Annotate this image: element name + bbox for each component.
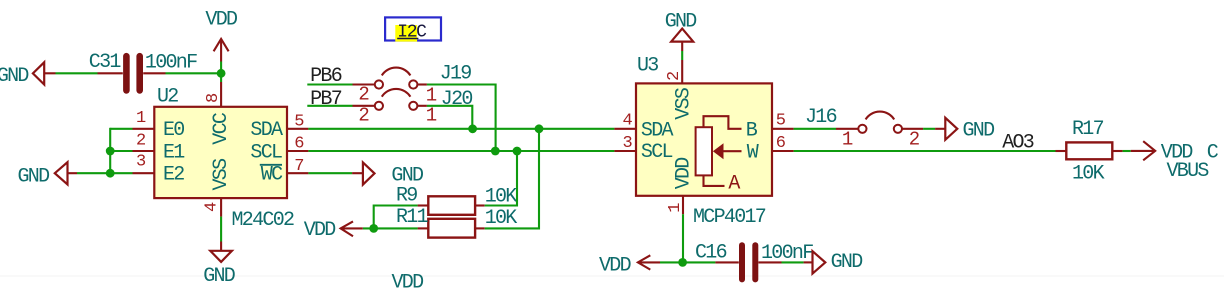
U2 pin name E2	[163, 164, 184, 187]
svg-text:R17: R17	[1072, 118, 1104, 141]
wire U3 pin1 down	[682, 214, 684, 262]
svg-text:VSS: VSS	[210, 158, 233, 191]
svg-text:W: W	[747, 142, 759, 165]
U3 pin name SCL	[641, 141, 673, 164]
svg-text:1: 1	[426, 104, 437, 126]
U3 pin name VDD (vertical)	[673, 158, 696, 190]
net label PB6	[310, 65, 342, 88]
svg-text:VDD: VDD	[205, 9, 237, 32]
wire R17 to VDD	[1123, 150, 1131, 152]
U3 pin name VSS (vertical)	[673, 87, 696, 120]
junction E2	[106, 169, 115, 178]
wire C16 to GND	[782, 261, 804, 263]
svg-text:VBUS: VBUS	[1167, 160, 1210, 183]
svg-text:1: 1	[136, 109, 146, 128]
svg-text:1: 1	[426, 84, 437, 106]
wire U3 pin2 stem	[681, 51, 683, 60]
power symbol GND (left, E pins)	[18, 162, 78, 188]
svg-text:VDD: VDD	[304, 219, 336, 242]
svg-text:1: 1	[842, 128, 853, 150]
wire VDD stem	[220, 62, 222, 83]
wire junction to C16	[660, 261, 715, 263]
svg-text:3: 3	[136, 153, 146, 172]
junction E1	[106, 147, 115, 156]
svg-text:SDA: SDA	[250, 119, 283, 142]
svg-text:B: B	[746, 119, 758, 142]
svg-text:4: 4	[203, 202, 222, 212]
wire C31 to VDD junction	[166, 72, 222, 74]
U2 pin 1	[133, 109, 155, 129]
svg-text:4: 4	[623, 112, 633, 131]
U2 pin 2	[133, 131, 155, 151]
svg-text:100nF: 100nF	[145, 51, 197, 74]
power symbol VDD (bottom center)	[392, 272, 424, 292]
U3 potentiometer symbol	[696, 116, 759, 195]
svg-text:10K: 10K	[1072, 163, 1105, 186]
svg-text:SCL: SCL	[250, 141, 282, 164]
junction SCL/R9	[513, 147, 522, 156]
svg-text:VSS: VSS	[673, 87, 696, 120]
U2 pin 3	[133, 153, 155, 174]
wire PB6	[307, 83, 352, 85]
jumper J19	[353, 62, 472, 106]
svg-text:J19: J19	[440, 62, 472, 85]
resistor R9	[396, 184, 517, 214]
capacitor C31	[89, 51, 197, 91]
U3 pin 1	[666, 196, 685, 214]
U2 pin name WC (active low)	[260, 164, 283, 187]
wire R11 right to SDA	[485, 129, 539, 229]
svg-text:3: 3	[623, 134, 633, 153]
svg-text:MCP4017: MCP4017	[693, 206, 766, 229]
svg-text:5: 5	[776, 112, 786, 131]
svg-text:2: 2	[358, 104, 369, 126]
wire GND to C31	[56, 72, 98, 74]
svg-text:SDA: SDA	[641, 119, 674, 142]
svg-text:R9: R9	[396, 184, 417, 207]
wire R9 right to SCL	[485, 151, 517, 206]
U3 pin 4	[614, 112, 636, 131]
wire U2 pin4 to GND	[220, 217, 222, 242]
svg-text:E2: E2	[163, 164, 184, 187]
wire PB7	[307, 105, 352, 107]
svg-text:U2: U2	[157, 86, 178, 109]
jumper J16	[805, 106, 923, 150]
svg-text:GND: GND	[18, 165, 50, 188]
svg-text:VCC: VCC	[210, 112, 233, 145]
power symbol VDD (right of R17)	[1131, 141, 1193, 164]
svg-text:VDD: VDD	[673, 158, 696, 190]
svg-text:6: 6	[294, 135, 304, 154]
svg-text:E1: E1	[163, 141, 185, 164]
wire R9 left to VDD junction	[374, 206, 418, 229]
junction SCL/J19	[491, 147, 500, 156]
svg-text:A: A	[728, 173, 740, 196]
text box I2C	[385, 17, 441, 42]
U3 pin 3	[614, 134, 636, 153]
svg-text:GND: GND	[203, 265, 235, 288]
power symbol GND (WC pin)	[308, 162, 423, 187]
svg-text:C16: C16	[695, 241, 727, 264]
junction SDA/R11	[535, 124, 544, 133]
wire U3 pin5 B to J16	[794, 128, 836, 130]
net label PB7	[310, 88, 342, 111]
junction (C31 / VDD / pin8)	[217, 69, 226, 78]
svg-text:2: 2	[665, 71, 684, 81]
svg-text:I2C: I2C	[397, 23, 427, 43]
jumper J20	[353, 88, 473, 126]
U2 pin name VSS (vertical)	[210, 158, 233, 191]
power symbol GND (below U2)	[203, 242, 235, 288]
svg-text:PB7: PB7	[310, 88, 342, 111]
svg-text:5: 5	[294, 113, 304, 132]
U2 pin 8	[204, 82, 223, 107]
power symbol GND (right of C16)	[804, 251, 863, 274]
U3 pin 6	[772, 134, 794, 153]
wire J20 to SDA	[427, 106, 472, 129]
U2 pin 4	[203, 198, 222, 217]
power symbol GND (right of J16)	[935, 118, 994, 143]
svg-text:2: 2	[909, 128, 920, 150]
wire R11 left	[363, 227, 418, 229]
wire SDA net	[308, 128, 614, 130]
svg-text:7: 7	[294, 157, 304, 176]
U2 pin 7	[287, 157, 308, 176]
resistor R11	[396, 206, 517, 238]
U2 pin name E1	[163, 141, 185, 164]
svg-text:R11: R11	[396, 206, 429, 229]
svg-text:1: 1	[666, 203, 685, 213]
wire SCL net	[308, 150, 614, 152]
power symbol GND (top of U3)	[665, 10, 697, 51]
power symbol GND (top-left)	[0, 62, 56, 88]
wire J19 to SCL	[427, 85, 496, 152]
junction VDD/C16	[678, 258, 687, 267]
svg-text:VDD: VDD	[392, 272, 424, 292]
svg-text:8: 8	[204, 93, 223, 103]
U2 pin name SDA	[250, 119, 283, 142]
svg-text:GND: GND	[831, 251, 863, 274]
U2 pin name E0	[163, 119, 184, 142]
net label AO3	[1002, 132, 1034, 155]
power symbol VDD (left of R11)	[304, 219, 363, 242]
svg-text:M24C02: M24C02	[232, 209, 295, 232]
svg-text:VDD: VDD	[599, 254, 631, 277]
svg-text:2: 2	[358, 83, 369, 105]
svg-text:AO3: AO3	[1002, 132, 1034, 155]
capacitor reference (cut off at right edge)	[1207, 141, 1219, 164]
U2 pin name SCL	[250, 141, 282, 164]
U3 pin 2	[665, 60, 684, 83]
U2 pin name VCC (vertical)	[210, 112, 233, 145]
resistor R17	[1056, 118, 1123, 186]
capacitor C16	[695, 241, 813, 279]
svg-text:J20: J20	[441, 88, 473, 111]
wire E0/E1/E2 tie	[77, 128, 133, 173]
svg-text:U3: U3	[637, 55, 658, 78]
svg-text:2: 2	[136, 131, 146, 150]
junction VDD/R9/R11	[369, 224, 378, 233]
U3 pin 5	[772, 112, 794, 131]
IC U3 MCP4017	[636, 55, 772, 229]
svg-text:10K: 10K	[485, 207, 518, 230]
svg-text:J16: J16	[805, 106, 837, 129]
svg-text:6: 6	[776, 134, 786, 153]
svg-text:GND: GND	[665, 10, 697, 33]
svg-text:GND: GND	[963, 119, 995, 142]
power symbol VDD (top of U2)	[205, 9, 237, 62]
IC U2 M24C02	[154, 86, 294, 232]
U2 pin 5	[287, 113, 308, 132]
svg-text:GND: GND	[0, 65, 28, 88]
junction SDA/J20	[468, 124, 477, 133]
power net VBUS text	[1167, 160, 1210, 183]
svg-text:C31: C31	[89, 51, 122, 74]
svg-text:WC: WC	[261, 164, 283, 187]
U3 pin name SDA	[641, 119, 674, 142]
svg-text:E0: E0	[163, 119, 184, 142]
power symbol VDD (below U3)	[599, 254, 660, 277]
svg-text:C: C	[1207, 141, 1219, 164]
page bottom border	[0, 275, 1224, 277]
wire J16 to GND	[923, 128, 935, 130]
wire U3 pin6 W to R17 (net AO3)	[794, 150, 1056, 152]
U2 pin 6	[287, 135, 308, 154]
svg-text:SCL: SCL	[641, 141, 673, 164]
